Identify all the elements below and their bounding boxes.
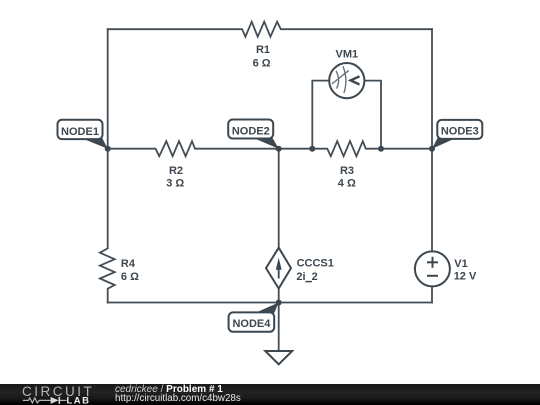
svg-text:NODE2: NODE2 bbox=[232, 126, 270, 138]
svg-text:12 V: 12 V bbox=[454, 271, 477, 283]
svg-text:6 Ω: 6 Ω bbox=[121, 271, 139, 283]
svg-text:R2: R2 bbox=[169, 165, 183, 177]
svg-text:CCCS1: CCCS1 bbox=[297, 258, 334, 270]
svg-text:R1: R1 bbox=[256, 44, 270, 56]
svg-text:R3: R3 bbox=[340, 165, 354, 177]
svg-text:NODE4: NODE4 bbox=[232, 318, 271, 330]
svg-text:NODE3: NODE3 bbox=[441, 126, 479, 138]
svg-text:R4: R4 bbox=[121, 258, 136, 270]
svg-text:6 Ω: 6 Ω bbox=[253, 57, 271, 69]
svg-text:3 Ω: 3 Ω bbox=[166, 178, 184, 190]
svg-text:VM1: VM1 bbox=[335, 49, 358, 61]
svg-text:V1: V1 bbox=[454, 258, 467, 270]
svg-text:NODE1: NODE1 bbox=[61, 126, 99, 138]
svg-text:4 Ω: 4 Ω bbox=[338, 178, 356, 190]
svg-text:LAB: LAB bbox=[67, 395, 91, 405]
